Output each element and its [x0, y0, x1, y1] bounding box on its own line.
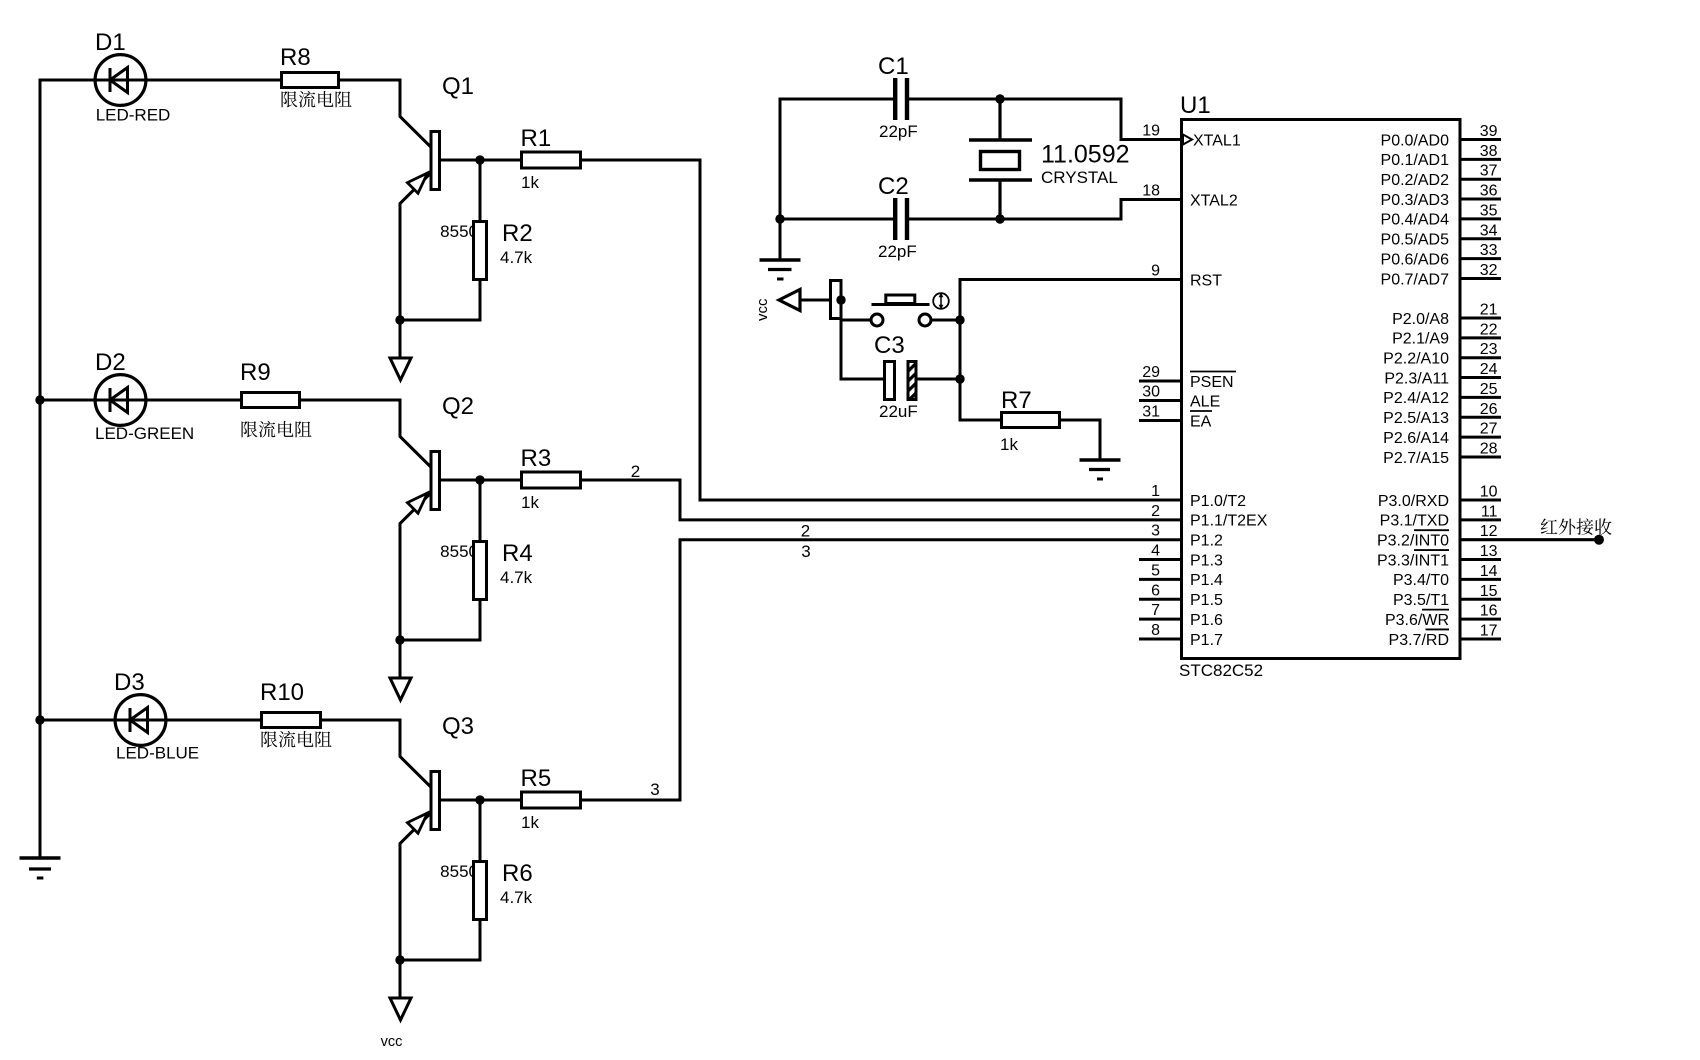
wire XTAL bottom rail	[779, 218, 894, 221]
svg-text:22uF: 22uF	[879, 402, 918, 421]
pin 38 P0.1/AD1	[1381, 143, 1501, 169]
ground GND1 bottom-left	[20, 858, 61, 878]
svg-text:R5: R5	[521, 765, 552, 792]
svg-text:1: 1	[1151, 483, 1160, 500]
svg-text:Q2: Q2	[442, 393, 474, 420]
svg-text:1k: 1k	[521, 813, 539, 832]
pin 8 P1.7	[1139, 622, 1223, 649]
wire RST to R7	[960, 419, 1002, 422]
pin 2 P1.1/T2EX	[1151, 503, 1268, 530]
svg-text:P3.7/RD: P3.7/RD	[1389, 632, 1449, 649]
wire left vertical to ground	[779, 98, 782, 261]
pin 37 P0.2/AD2	[1381, 163, 1501, 189]
resistor R10 限流电阻	[260, 679, 332, 747]
svg-text:5: 5	[1151, 562, 1160, 579]
wire switch right to RST	[931, 319, 962, 322]
label 红外接收	[1541, 518, 1612, 535]
pin 34 P0.5/AD5	[1381, 222, 1501, 248]
power VCC arrow below Q3	[390, 960, 411, 1020]
svg-text:P1.6: P1.6	[1190, 612, 1223, 629]
svg-text:P2.7/A15: P2.7/A15	[1383, 450, 1449, 467]
pin 13 P3.3/INT1	[1377, 543, 1501, 569]
svg-text:34: 34	[1480, 222, 1498, 239]
svg-text:4.7k: 4.7k	[500, 568, 533, 587]
pin 10 P3.0/RXD	[1378, 484, 1501, 510]
node C1 rail / crystal top	[995, 94, 1004, 103]
svg-text:7: 7	[1151, 602, 1160, 619]
svg-text:30: 30	[1142, 384, 1160, 401]
svg-text:R9: R9	[240, 359, 271, 386]
svg-text:4: 4	[1151, 543, 1160, 560]
svg-text:P1.5: P1.5	[1190, 592, 1223, 609]
svg-text:22pF: 22pF	[879, 122, 918, 141]
wire net P1.2 from R5 to pin 3	[582, 540, 1181, 800]
svg-text:11: 11	[1481, 503, 1498, 520]
ground GND2 (crystal)	[760, 260, 801, 279]
svg-text:33: 33	[1480, 242, 1498, 259]
svg-text:Q3: Q3	[442, 713, 474, 740]
svg-text:P0.6/AD6: P0.6/AD6	[1381, 251, 1450, 268]
pin 11 P3.1/TXD	[1380, 503, 1501, 529]
svg-text:P3.0/RXD: P3.0/RXD	[1378, 493, 1449, 510]
svg-text:8: 8	[1151, 622, 1160, 639]
svg-text:35: 35	[1480, 202, 1498, 219]
LED D2 (LED-GREEN)	[95, 349, 194, 443]
svg-text:37: 37	[1480, 163, 1498, 180]
pin 7 P1.6	[1139, 602, 1223, 629]
transistor Q3 8550 PNP	[400, 713, 478, 962]
svg-text:12: 12	[1480, 523, 1498, 540]
resistor R6 4.7k (base-emitter)	[399, 800, 533, 960]
svg-text:R1: R1	[521, 125, 552, 152]
svg-text:4.7k: 4.7k	[500, 888, 533, 907]
pin 35 P0.4/AD4	[1381, 202, 1501, 228]
svg-text:P0.2/AD2: P0.2/AD2	[1381, 172, 1450, 189]
svg-text:P2.4/A12: P2.4/A12	[1383, 390, 1449, 407]
svg-text:P1.4: P1.4	[1190, 572, 1223, 589]
svg-text:2: 2	[1151, 503, 1160, 520]
node Q1 emitter junction	[395, 315, 404, 324]
svg-text:P0.5/AD5: P0.5/AD5	[1381, 232, 1450, 249]
node C3/RST junction	[955, 374, 964, 383]
svg-text:P1.1/T2EX: P1.1/T2EX	[1190, 513, 1268, 530]
pin 24 P2.3/A11	[1384, 361, 1501, 387]
node D2 rail junction	[35, 395, 44, 404]
node Q1 base junction	[475, 155, 484, 164]
wire net P1.0 from R1 to pin 1	[582, 160, 1181, 500]
svg-text:P0.7/AD7: P0.7/AD7	[1381, 271, 1450, 288]
LED D1 (LED-RED)	[95, 29, 170, 125]
pin 31 EA	[1139, 404, 1212, 431]
ground GND3 (R7)	[1080, 460, 1121, 479]
svg-text:2: 2	[631, 462, 640, 481]
wire VCC to reset node	[800, 299, 843, 302]
wire Q3 base	[440, 799, 521, 802]
svg-text:R3: R3	[521, 445, 552, 472]
svg-text:vcc: vcc	[381, 1034, 403, 1050]
svg-text:P2.2/A10: P2.2/A10	[1383, 351, 1449, 368]
capacitor C1 22pF	[878, 53, 918, 141]
svg-text:6: 6	[1151, 582, 1160, 599]
wire Q1 base	[440, 159, 521, 162]
pin 21 P2.0/A8	[1392, 302, 1501, 328]
svg-text:36: 36	[1480, 183, 1498, 200]
svg-text:P3.2/INT0: P3.2/INT0	[1377, 533, 1449, 550]
wire XTAL top rail	[779, 98, 894, 101]
svg-text:29: 29	[1142, 364, 1160, 381]
svg-text:22pF: 22pF	[878, 242, 917, 261]
svg-text:P3.4/T0: P3.4/T0	[1393, 572, 1449, 589]
svg-text:3: 3	[1151, 523, 1160, 540]
svg-text:XTAL2: XTAL2	[1190, 192, 1238, 209]
svg-text:P0.0/AD0: P0.0/AD0	[1381, 132, 1450, 149]
pin 12 P3.2/INT0	[1377, 523, 1498, 549]
svg-text:D3: D3	[114, 669, 145, 696]
svg-text:ALE: ALE	[1190, 393, 1220, 410]
svg-text:26: 26	[1480, 401, 1498, 418]
svg-text:P3.1/TXD: P3.1/TXD	[1380, 513, 1449, 530]
svg-text:11.0592: 11.0592	[1041, 141, 1130, 169]
svg-text:LED-BLUE: LED-BLUE	[116, 744, 199, 763]
resistor R8 限流电阻	[280, 44, 352, 107]
svg-text:D2: D2	[95, 349, 126, 376]
svg-text:P0.1/AD1: P0.1/AD1	[1381, 152, 1450, 169]
node switch/RST junction	[955, 315, 964, 324]
pin 25 P2.4/A12	[1383, 381, 1501, 407]
svg-text:R6: R6	[502, 860, 533, 887]
svg-text:STC82C52: STC82C52	[1179, 661, 1263, 680]
svg-text:2: 2	[801, 522, 810, 541]
capacitor C2 22pF	[878, 173, 917, 261]
node 红外接收 terminal	[1594, 535, 1604, 545]
svg-text:R4: R4	[502, 540, 533, 567]
svg-text:23: 23	[1480, 341, 1498, 358]
svg-text:R2: R2	[502, 220, 533, 247]
pin 26 P2.5/A13	[1383, 401, 1501, 427]
power VCC arrow below Q2	[390, 640, 411, 700]
node Q3 base junction	[475, 795, 484, 804]
svg-text:P1.7: P1.7	[1190, 632, 1223, 649]
wire reset left vertical	[840, 300, 843, 381]
transistor Q1 8550 PNP	[400, 73, 478, 322]
svg-text:27: 27	[1480, 421, 1498, 438]
svg-text:P2.5/A13: P2.5/A13	[1383, 410, 1449, 427]
svg-text:P0.3/AD3: P0.3/AD3	[1381, 192, 1450, 209]
svg-text:1k: 1k	[1000, 435, 1018, 454]
pin 36 P0.3/AD3	[1381, 183, 1501, 209]
pin 19 XTAL1	[1142, 123, 1241, 150]
pin 14 P3.4/T0	[1393, 563, 1501, 589]
svg-text:24: 24	[1480, 361, 1498, 378]
svg-text:P2.6/A14: P2.6/A14	[1383, 430, 1449, 447]
transistor Q2 8550 PNP	[400, 393, 478, 642]
svg-text:R7: R7	[1001, 387, 1032, 414]
pin 22 P2.1/A9	[1392, 321, 1501, 347]
svg-text:R10: R10	[260, 679, 304, 706]
svg-text:21: 21	[1480, 302, 1498, 319]
wire C3 left	[841, 378, 884, 381]
pin 39 P0.0/AD0	[1381, 123, 1501, 149]
svg-text:P1.2: P1.2	[1190, 533, 1223, 550]
svg-text:XTAL1: XTAL1	[1193, 132, 1241, 149]
node Q3 emitter junction	[395, 955, 404, 964]
svg-text:31: 31	[1142, 404, 1160, 421]
resistor R1 1k	[521, 125, 581, 192]
svg-text:P3.5/T1: P3.5/T1	[1393, 592, 1449, 609]
node Q2 base junction	[475, 475, 484, 484]
wire D3 row	[39, 719, 261, 722]
pin 9 RST	[1151, 263, 1222, 290]
svg-text:D1: D1	[95, 29, 126, 56]
svg-text:P0.4/AD4: P0.4/AD4	[1381, 212, 1450, 229]
svg-text:Q1: Q1	[442, 73, 474, 100]
resistor R2 4.7k (base-emitter)	[399, 160, 533, 320]
wire Q2 base	[440, 479, 521, 482]
svg-text:4.7k: 4.7k	[500, 248, 533, 267]
pin 16 P3.6/WR	[1385, 603, 1501, 629]
wire left VCC rail	[39, 79, 42, 859]
svg-text:15: 15	[1480, 583, 1498, 600]
wire 红外接收 net from pin 12	[1460, 538, 1599, 541]
svg-text:CRYSTAL: CRYSTAL	[1041, 168, 1118, 187]
pin 30 ALE	[1139, 384, 1220, 411]
svg-text:16: 16	[1480, 603, 1498, 620]
svg-text:vcc: vcc	[754, 298, 771, 321]
svg-text:17: 17	[1480, 622, 1498, 639]
svg-text:14: 14	[1480, 563, 1498, 580]
pin 1 P1.0/T2	[1151, 483, 1246, 510]
pin 27 P2.6/A14	[1383, 421, 1501, 447]
svg-text:PSEN: PSEN	[1190, 374, 1234, 391]
svg-text:32: 32	[1480, 262, 1498, 279]
pin 32 P0.7/AD7	[1381, 262, 1501, 288]
wire R7 to ground	[1060, 420, 1101, 460]
svg-text:U1: U1	[1180, 92, 1211, 119]
node Q2 emitter junction	[395, 635, 404, 644]
svg-text:P3.6/WR: P3.6/WR	[1385, 612, 1449, 629]
svg-text:C3: C3	[874, 332, 905, 359]
svg-text:P2.3/A11: P2.3/A11	[1384, 370, 1449, 387]
node C2 rail / ground branch	[775, 214, 784, 223]
pin 23 P2.2/A10	[1383, 341, 1501, 367]
resistor (reset pull) small box	[831, 281, 842, 319]
wire RST to chip pin 9	[960, 278, 1181, 281]
pin 6 P1.5	[1139, 582, 1223, 609]
resistor R3 1k	[521, 445, 581, 512]
svg-text:P1.0/T2: P1.0/T2	[1190, 493, 1246, 510]
svg-text:RST: RST	[1190, 272, 1222, 289]
wire C3 right to RST	[918, 378, 962, 381]
svg-text:3: 3	[650, 780, 659, 799]
LED D3 (LED-BLUE)	[114, 669, 199, 763]
resistor R5 1k	[521, 765, 581, 832]
svg-text:P2.1/A9: P2.1/A9	[1392, 331, 1449, 348]
svg-text:10: 10	[1480, 484, 1498, 501]
svg-text:P1.3: P1.3	[1190, 552, 1223, 569]
pin 18 XTAL2	[1142, 183, 1238, 210]
svg-text:P2.0/A8: P2.0/A8	[1392, 311, 1449, 328]
pin 17 P3.7/RD	[1389, 622, 1501, 648]
svg-text:25: 25	[1480, 381, 1498, 398]
svg-text:28: 28	[1480, 440, 1498, 457]
pushbutton switch	[871, 293, 949, 326]
clock input marker XTAL1	[1183, 135, 1192, 145]
svg-text:LED-RED: LED-RED	[96, 106, 171, 125]
svg-text:C2: C2	[878, 173, 909, 200]
node C2 rail / crystal bottom	[995, 214, 1004, 223]
svg-text:38: 38	[1480, 143, 1498, 160]
pin 28 P2.7/A15	[1383, 440, 1501, 466]
svg-text:EA: EA	[1190, 413, 1212, 430]
pin 33 P0.6/AD6	[1381, 242, 1501, 268]
pin 5 P1.4	[1139, 562, 1223, 589]
svg-text:13: 13	[1480, 543, 1498, 560]
svg-text:1k: 1k	[521, 173, 539, 192]
wire D2 row	[39, 399, 241, 402]
pin 4 P1.3	[1139, 543, 1223, 570]
wire RST vertical	[959, 278, 962, 422]
svg-text:19: 19	[1142, 123, 1160, 140]
resistor R9 限流电阻	[240, 359, 312, 437]
crystal X1 11.0592	[969, 99, 1130, 219]
power VCC arrow (reset)	[779, 290, 800, 311]
svg-text:LED-GREEN: LED-GREEN	[95, 424, 194, 443]
svg-text:3: 3	[801, 542, 810, 561]
node D3 rail junction	[35, 715, 44, 724]
svg-text:R8: R8	[280, 44, 311, 71]
wire net P1.1 from R3 to pin 2	[582, 480, 1181, 520]
svg-text:39: 39	[1480, 123, 1498, 140]
wire to switch left	[842, 319, 872, 322]
node reset vcc junction	[836, 295, 845, 304]
wire D1 row	[39, 79, 281, 82]
IC U1 STC82C52 body	[1182, 120, 1461, 659]
resistor R4 4.7k (base-emitter)	[399, 480, 533, 640]
pin 15 P3.5/T1	[1393, 583, 1501, 609]
svg-text:1k: 1k	[521, 493, 539, 512]
resistor R7 1k	[1000, 387, 1060, 454]
svg-text:C1: C1	[878, 53, 909, 80]
pin 3 P1.2	[1151, 523, 1223, 550]
capacitor C3 22uF electrolytic	[874, 332, 918, 421]
svg-text:22: 22	[1480, 321, 1498, 338]
svg-text:18: 18	[1142, 183, 1160, 200]
svg-text:9: 9	[1151, 263, 1160, 280]
power VCC arrow below Q1	[390, 320, 411, 380]
svg-text:P3.3/INT1: P3.3/INT1	[1377, 552, 1449, 569]
pin 29 PSEN	[1139, 364, 1236, 391]
